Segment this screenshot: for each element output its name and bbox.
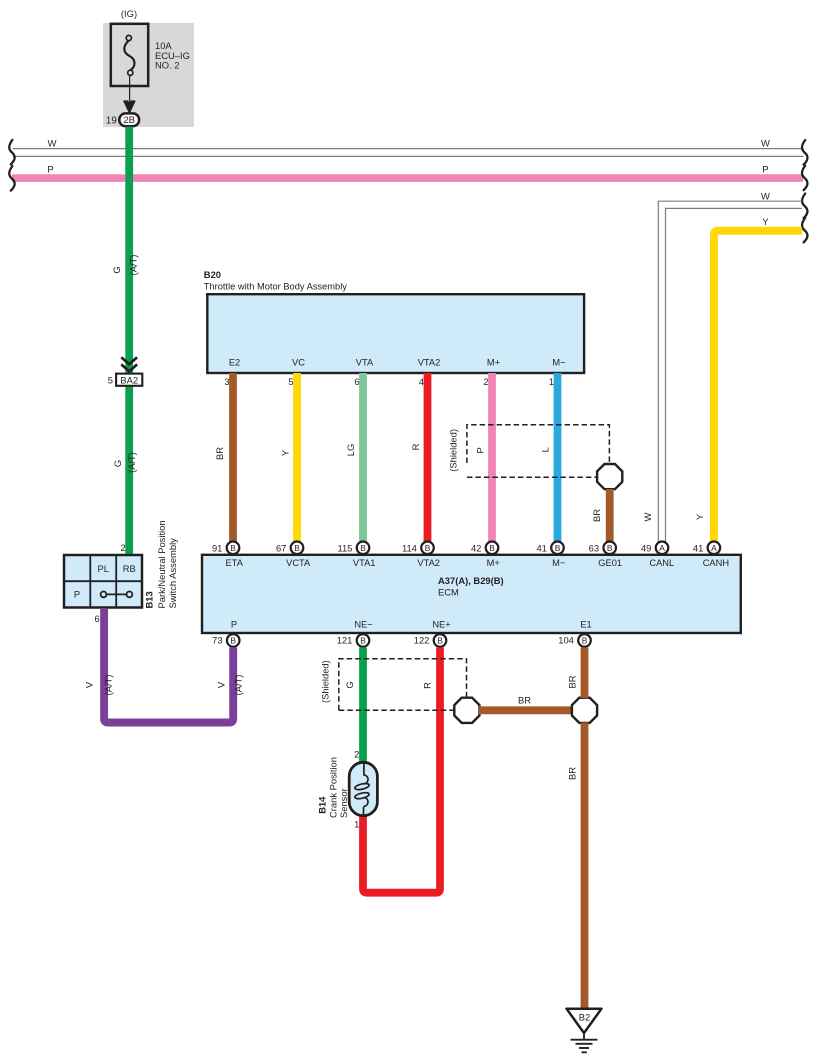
ECM pin 67 B (VCTA) [276, 542, 303, 555]
svg-text:P: P [74, 590, 80, 600]
svg-text:RB: RB [123, 564, 136, 574]
B14 pin 2 label [354, 749, 359, 760]
svg-text:VCTA: VCTA [286, 558, 311, 568]
svg-text:121: 121 [337, 635, 353, 646]
svg-text:5: 5 [288, 376, 293, 387]
wire BR E1 to ground (brown) [566, 647, 584, 1009]
svg-text:63: 63 [589, 543, 599, 554]
svg-text:LG: LG [345, 444, 356, 457]
svg-text:73: 73 [212, 635, 222, 646]
shield box (upper) around P and L wires [448, 425, 610, 478]
svg-text:R: R [422, 682, 433, 689]
svg-text:115: 115 [337, 543, 352, 554]
ECM pin 121 B (NE-) [337, 634, 370, 647]
svg-text:4: 4 [419, 376, 424, 387]
svg-text:PL: PL [98, 564, 109, 574]
svg-text:Y: Y [762, 216, 769, 227]
svg-text:B20: B20 [204, 269, 221, 280]
svg-text:G: G [344, 681, 355, 688]
svg-text:104: 104 [558, 635, 574, 646]
svg-text:NE−: NE− [354, 619, 372, 629]
B14 component name (rotated) [316, 757, 349, 818]
svg-text:B13: B13 [144, 591, 155, 608]
svg-text:1: 1 [549, 376, 554, 387]
svg-text:BR: BR [591, 509, 602, 522]
svg-text:BR: BR [518, 695, 531, 706]
fuse block shaded background [103, 23, 194, 127]
svg-text:G: G [111, 266, 122, 273]
svg-text:(A/T): (A/T) [233, 675, 244, 696]
svg-text:2: 2 [483, 376, 488, 387]
svg-text:ECM: ECM [438, 586, 459, 597]
svg-text:G: G [112, 460, 123, 467]
svg-text:BA2: BA2 [120, 374, 138, 385]
svg-text:49: 49 [641, 543, 651, 554]
svg-text:114: 114 [402, 543, 417, 554]
svg-text:VTA1: VTA1 [353, 558, 376, 568]
svg-text:2B: 2B [123, 115, 135, 126]
node (IG) label [121, 8, 137, 19]
svg-text:Y: Y [694, 513, 705, 520]
svg-text:B14: B14 [316, 796, 327, 814]
svg-text:A37(A), B29(B): A37(A), B29(B) [438, 575, 504, 586]
wire P M+ to M+ [474, 373, 492, 542]
svg-text:BR: BR [566, 767, 577, 780]
wire W horizontal (top) [13, 137, 804, 156]
svg-text:GE01: GE01 [598, 558, 622, 568]
connector BA2 pin 5 [108, 374, 143, 386]
svg-text:E2: E2 [229, 358, 240, 368]
wire BR E2 to ETA [214, 373, 233, 542]
break symbol right Y [802, 218, 807, 243]
svg-text:NE+: NE+ [432, 619, 450, 629]
B14 pin 1 label [354, 819, 359, 830]
svg-text:L: L [539, 447, 550, 452]
svg-text:41: 41 [693, 543, 703, 554]
svg-text:Switch Assembly: Switch Assembly [167, 538, 178, 609]
svg-text:67: 67 [276, 543, 286, 554]
B13 pin 2 label [120, 542, 125, 553]
ECM pin 49 A (CANL) [641, 542, 668, 555]
wire R VTA2 to VTA2 [410, 373, 428, 542]
wire BR shield to GE01 [591, 489, 610, 542]
wire Y to CANH [694, 216, 802, 542]
svg-text:E1: E1 [580, 619, 591, 629]
svg-text:91: 91 [212, 543, 222, 554]
svg-text:CANL: CANL [649, 558, 674, 568]
svg-text:(A/T): (A/T) [103, 675, 114, 696]
break symbol right W2 [802, 194, 807, 219]
ECM pin 114 B (VTA2) [402, 542, 434, 555]
wire W to CANL [642, 190, 802, 542]
svg-text:W: W [642, 512, 653, 521]
svg-text:6: 6 [94, 613, 99, 624]
svg-text:CANH: CANH [703, 558, 729, 568]
svg-text:2: 2 [120, 542, 125, 553]
svg-text:(IG): (IG) [121, 8, 137, 19]
svg-text:BR: BR [566, 675, 577, 688]
svg-text:Sensor: Sensor [338, 788, 349, 818]
break symbol right P [802, 166, 807, 191]
svg-text:V: V [83, 681, 94, 688]
svg-text:W: W [48, 137, 57, 148]
svg-text:M+: M+ [487, 358, 500, 368]
svg-text:NO. 2: NO. 2 [155, 60, 180, 71]
svg-text:P: P [474, 447, 485, 453]
wire LG VTA to VTA1 [345, 373, 363, 542]
ECM pin 115 B (VTA1) [337, 542, 369, 555]
svg-text:3: 3 [224, 376, 229, 387]
svg-text:VC: VC [292, 358, 305, 368]
svg-text:5: 5 [108, 375, 113, 386]
wire G ignition to B13 (green vertical) [111, 127, 139, 556]
B13 component name (rotated) [144, 520, 179, 608]
svg-text:P: P [231, 619, 237, 629]
break symbol right W [802, 140, 807, 165]
svg-text:VTA2: VTA2 [418, 358, 441, 368]
ECM box A37(A), B29(B) [202, 555, 741, 633]
svg-text:Crank Position: Crank Position [328, 757, 339, 818]
svg-text:M+: M+ [487, 558, 500, 568]
svg-text:P: P [47, 163, 53, 174]
ECM pin 122 B (NE+) [414, 634, 447, 647]
break symbol left W [9, 140, 14, 165]
svg-text:2: 2 [354, 749, 359, 760]
wire R NE+ to crank sensor [363, 647, 440, 892]
ground B2 [567, 1009, 602, 1053]
B20 pin numbers [224, 376, 554, 387]
svg-text:(Shielded): (Shielded) [448, 429, 459, 472]
B20 Throttle with Motor Body Assembly box [207, 294, 584, 373]
wire P horizontal (pink) [12, 163, 803, 182]
svg-text:V: V [216, 681, 227, 688]
fuse 10A ECU-IG NO.2 [111, 24, 190, 86]
svg-text:19: 19 [106, 116, 117, 127]
shield ground octagon (upper) [597, 464, 622, 489]
ECM pin 63 B (GE01) [589, 542, 616, 555]
ECM pin 41 B (M-) [536, 542, 563, 555]
wire G NE- to crank sensor [344, 647, 363, 763]
B13 pin 6 label [94, 613, 99, 624]
svg-text:W: W [761, 137, 770, 148]
shield box (lower) around G and R wires [319, 659, 466, 711]
svg-text:1: 1 [354, 819, 359, 830]
svg-text:P: P [762, 163, 768, 174]
ECM pin 41 A (CANH) [693, 542, 720, 555]
B13 switch contact symbol [101, 592, 133, 598]
shield ground octagon (on E1 wire) [572, 698, 597, 723]
svg-text:ETA: ETA [226, 558, 244, 568]
svg-text:122: 122 [414, 635, 430, 646]
svg-text:VTA: VTA [356, 358, 374, 368]
shield ground octagon (lower left) [454, 698, 479, 723]
ECM pin 42 B (M+) [471, 542, 498, 555]
wire L M− to M− [539, 373, 557, 542]
svg-text:W: W [761, 190, 770, 201]
svg-text:42: 42 [471, 543, 481, 554]
ECM pin 104 B (E1) [558, 634, 591, 647]
wire Y VC to VCTA [279, 373, 297, 542]
svg-text:VTA2: VTA2 [417, 558, 440, 568]
svg-text:41: 41 [536, 543, 546, 554]
wire V from ECM pin P to B13 (purple) [83, 609, 243, 723]
ECM pin 91 B (ETA) [212, 542, 239, 555]
break symbol left P [9, 166, 14, 191]
svg-text:Throttle with Motor Body Assem: Throttle with Motor Body Assembly [204, 281, 347, 291]
svg-text:Park/Neutral Position: Park/Neutral Position [156, 520, 167, 608]
svg-text:(A/T): (A/T) [128, 255, 139, 276]
svg-text:(Shielded): (Shielded) [319, 660, 330, 703]
svg-text:BR: BR [214, 447, 225, 460]
svg-text:Y: Y [279, 449, 290, 456]
continuation chevrons on green wire [121, 357, 137, 371]
svg-text:(A/T): (A/T) [126, 452, 137, 473]
svg-text:M−: M− [552, 558, 565, 568]
svg-text:B2: B2 [579, 1012, 590, 1023]
wire BR between shield octagons [479, 695, 572, 711]
B13 Park/Neutral Position Switch Assembly box [64, 555, 142, 608]
ECM pin 73 B (P) [212, 634, 239, 647]
connector 2B pin 19 [106, 113, 139, 126]
svg-text:R: R [410, 443, 421, 450]
wire fuse to connector 2B [124, 75, 135, 113]
B20 component labels [204, 269, 347, 291]
sensor B14 Crank Position Sensor (coil capsule) [349, 762, 377, 816]
svg-text:6: 6 [354, 376, 359, 387]
svg-text:M−: M− [552, 358, 565, 368]
